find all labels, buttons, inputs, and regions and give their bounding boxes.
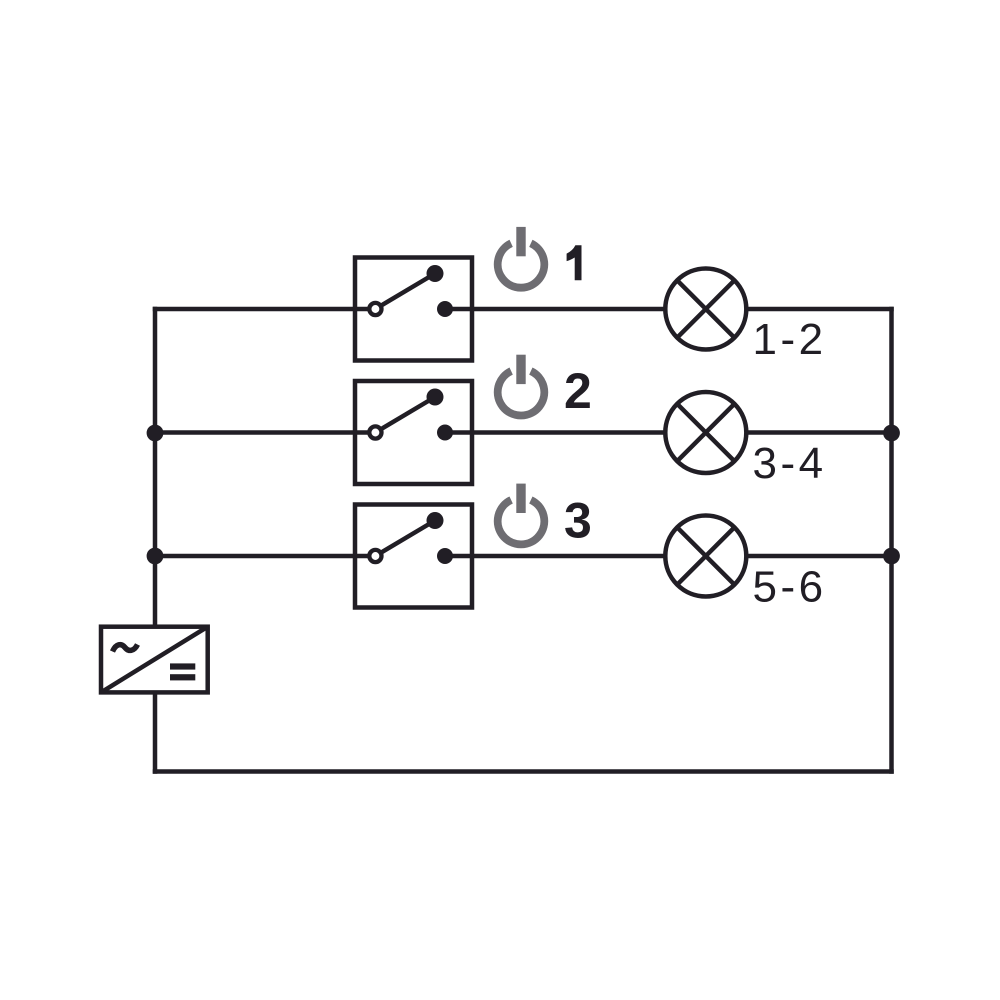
wire row 3 left bbox=[155, 554, 375, 559]
wire row 3 right bbox=[445, 554, 892, 559]
switch S1 bbox=[355, 258, 472, 361]
svg-text:3-4: 3-4 bbox=[753, 439, 827, 488]
wire row 1 right bbox=[445, 307, 892, 312]
wire bottom bus bbox=[155, 769, 892, 774]
power button icon 1 bbox=[498, 227, 545, 288]
wire row 1 left bbox=[155, 307, 375, 312]
lamp E3 bbox=[665, 516, 746, 597]
lamp E1 bbox=[665, 269, 746, 350]
wire left bus lower bbox=[153, 692, 158, 771]
wire left bus upper bbox=[153, 309, 158, 627]
AC/DC converter U1 bbox=[101, 627, 208, 693]
svg-text:2: 2 bbox=[564, 363, 592, 419]
wire row 2 left bbox=[155, 430, 375, 435]
junction right row 2 bbox=[883, 425, 900, 442]
wire right bus bbox=[889, 309, 894, 772]
svg-text:1-2: 1-2 bbox=[753, 315, 827, 364]
power button icon 3 bbox=[498, 484, 545, 545]
switch S2 bbox=[355, 381, 472, 484]
lamp E2 bbox=[665, 392, 746, 473]
junction left row 3 bbox=[147, 548, 164, 565]
wire row 2 right bbox=[445, 430, 892, 435]
junction right row 3 bbox=[883, 548, 900, 565]
svg-text:5-6: 5-6 bbox=[753, 562, 827, 611]
power button icon 2 bbox=[498, 355, 545, 416]
label 1 bbox=[567, 245, 582, 280]
junction left row 2 bbox=[147, 425, 164, 442]
svg-text:3: 3 bbox=[564, 492, 592, 548]
switch S3 bbox=[355, 505, 472, 608]
